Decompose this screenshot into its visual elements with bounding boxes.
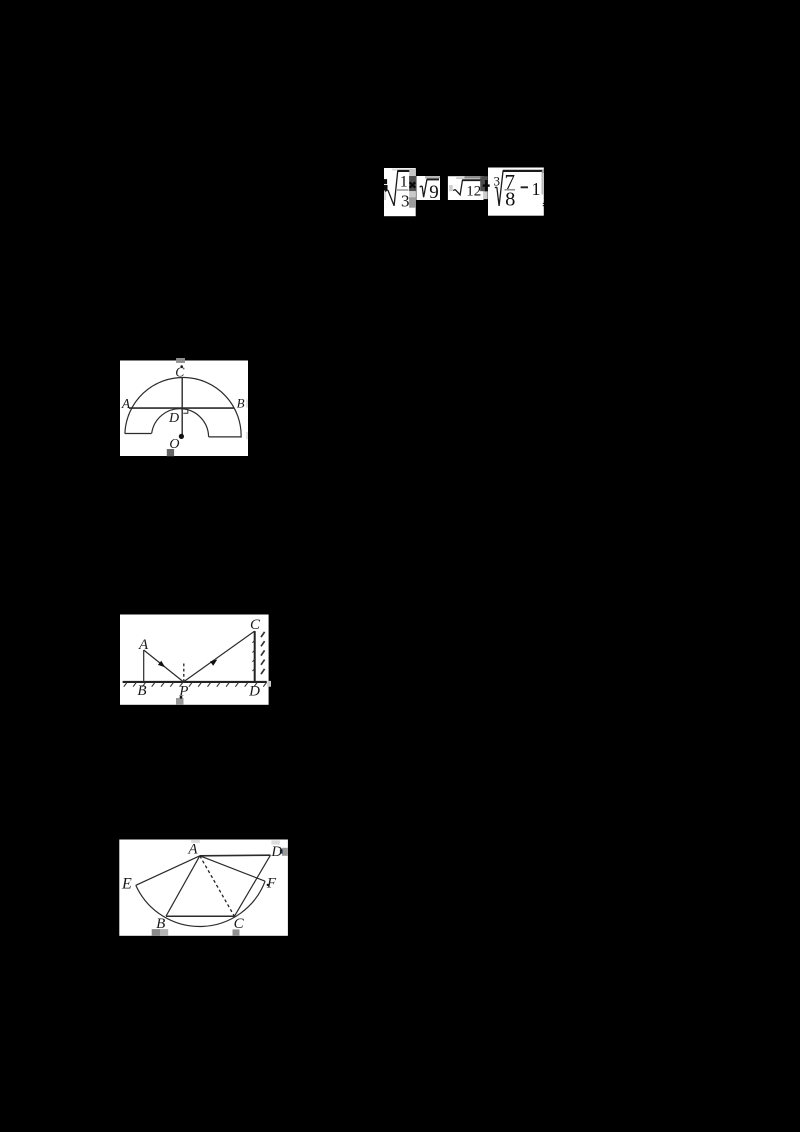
line AF xyxy=(200,856,265,881)
bottom left segment xyxy=(125,433,152,435)
svg-text:O: O xyxy=(169,437,179,452)
grey tick right edge near B xyxy=(246,400,248,408)
svg-text:F: F xyxy=(266,875,277,891)
grey mark above C xyxy=(176,358,185,363)
svg-text:B: B xyxy=(156,916,165,932)
grey tick right edge xyxy=(267,681,271,687)
formula box: sqrt(12) xyxy=(448,176,484,200)
vertical AB xyxy=(143,650,145,682)
svg-text:C: C xyxy=(234,916,245,932)
svg-text:C: C xyxy=(175,365,185,380)
ground hatches xyxy=(124,682,267,686)
svg-text:3: 3 xyxy=(493,174,500,189)
svg-text:9: 9 xyxy=(429,182,439,203)
grey above A xyxy=(191,840,200,843)
arc EBCF xyxy=(136,881,265,926)
grey square below P xyxy=(176,698,184,705)
formula box: sqrt(9) xyxy=(416,176,440,203)
formula box: sqrt(1/3) xyxy=(384,168,416,216)
line AB xyxy=(166,856,200,916)
grey below C xyxy=(233,929,240,936)
grey mark below O xyxy=(167,449,174,456)
point O xyxy=(179,434,184,439)
bottom right segment xyxy=(209,436,242,438)
vertical CO xyxy=(181,378,183,437)
line AD xyxy=(200,854,271,857)
vertical CD wall xyxy=(254,631,256,682)
formula box: cbrt(7/8 - 1) xyxy=(483,168,544,216)
line AE xyxy=(136,856,200,886)
svg-text:1: 1 xyxy=(400,174,408,191)
arrowhead on PC xyxy=(210,660,217,666)
dashed AC xyxy=(200,856,235,917)
grey below B two tone xyxy=(152,929,160,936)
svg-text:3: 3 xyxy=(401,191,410,210)
svg-text:A: A xyxy=(121,396,131,411)
svg-text:1: 1 xyxy=(532,179,541,199)
svg-text:12: 12 xyxy=(466,184,481,200)
dashed normal at P xyxy=(183,664,185,682)
ticks on CD xyxy=(253,640,255,671)
small arc xyxy=(152,409,209,437)
navy dot left of grey xyxy=(280,849,283,853)
svg-text:C: C xyxy=(250,617,261,633)
ray A to P xyxy=(144,650,184,682)
line DC xyxy=(234,855,270,916)
grey tick right edge lower xyxy=(246,432,248,439)
svg-text:B: B xyxy=(237,396,245,411)
chord AB xyxy=(129,407,234,409)
svg-text:A: A xyxy=(138,637,149,653)
line BC xyxy=(166,915,234,917)
svg-text:B: B xyxy=(137,683,146,699)
svg-text:P: P xyxy=(178,684,188,700)
dot below P label xyxy=(180,696,183,699)
wall hatching dashes xyxy=(261,632,265,674)
grey right of D xyxy=(282,848,288,856)
ray P to C xyxy=(184,631,255,682)
svg-text:A: A xyxy=(187,841,198,857)
right angle mark at D xyxy=(183,409,188,413)
svg-text:8: 8 xyxy=(505,189,515,211)
big arc xyxy=(125,377,241,437)
svg-text:D: D xyxy=(248,684,260,700)
svg-text:D: D xyxy=(270,844,282,860)
arrowhead on AP xyxy=(158,661,165,668)
dot near F xyxy=(267,884,269,886)
dot above C xyxy=(180,365,183,368)
svg-text:E: E xyxy=(121,876,132,893)
svg-text:D: D xyxy=(168,411,179,426)
ground line xyxy=(123,681,267,683)
grey above D xyxy=(271,840,280,844)
plus sign with grey squares xyxy=(480,176,488,199)
